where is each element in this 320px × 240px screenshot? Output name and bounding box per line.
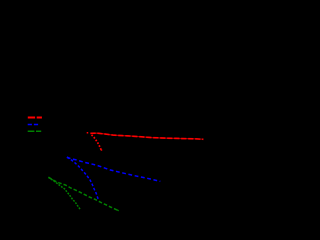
- legend blue sample: [28, 124, 39, 126]
- green curve gentle branch terminal dash: [117, 210, 119, 211]
- green curve steep branch: [48, 177, 80, 209]
- blue curve gentle branch: [67, 157, 160, 181]
- red curve gentle branch: [90, 133, 203, 139]
- green curve gentle branch: [48, 177, 118, 210]
- legend green sample: [28, 130, 42, 132]
- red curve steep branch terminal dot: [101, 149, 103, 151]
- blue curve steep branch: [67, 157, 98, 199]
- red curve lead dot: [87, 132, 89, 134]
- legend red sample: [28, 117, 42, 119]
- red curve steep branch: [92, 135, 102, 151]
- red curve gentle branch underlay: [90, 133, 203, 139]
